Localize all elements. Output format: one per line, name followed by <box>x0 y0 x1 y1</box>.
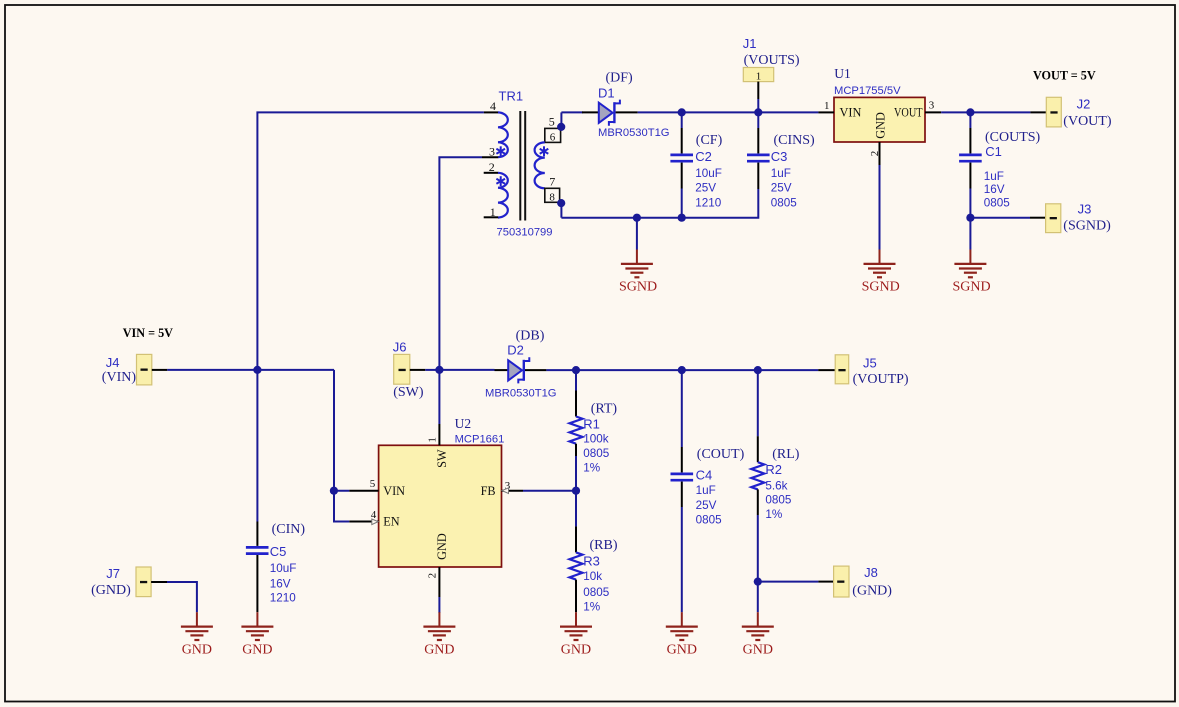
connector J5 <box>818 355 849 384</box>
D1 part number label <box>598 127 670 139</box>
svg-text:GND: GND <box>874 112 888 139</box>
svg-text:MCP1661: MCP1661 <box>455 433 505 445</box>
TR1 pin 1 number <box>490 205 496 219</box>
TR1 pin 6 designator box <box>545 128 561 143</box>
connector J7 <box>136 567 167 597</box>
junction J1 / C3 <box>754 108 762 116</box>
R2 designator <box>765 462 782 477</box>
diode D1 designator <box>598 86 615 101</box>
connector J1 designator <box>743 36 757 51</box>
net label (DB) <box>516 329 545 344</box>
svg-text:J8: J8 <box>864 565 878 580</box>
C2 value 10uF <box>695 167 722 180</box>
svg-text:16V: 16V <box>984 183 1005 196</box>
svg-text:J3: J3 <box>1078 201 1092 216</box>
svg-text:1210: 1210 <box>270 592 297 605</box>
C5 designator <box>270 544 287 559</box>
J7 designator <box>106 566 120 581</box>
net label (RL) <box>772 447 800 462</box>
wire top rail D1 to U1 <box>638 111 819 113</box>
svg-text:1: 1 <box>426 437 438 443</box>
net flag VOUT = 5V <box>1033 68 1096 82</box>
net label (CIN) <box>272 522 306 537</box>
TR1 polarity dot secondary <box>540 146 549 156</box>
svg-text:GND: GND <box>435 533 449 560</box>
resistor R2 <box>751 370 764 581</box>
R2 value 5.6k <box>765 480 787 493</box>
J3 designator <box>1078 201 1092 216</box>
C5 value 16V <box>270 577 291 590</box>
svg-text:(COUTS): (COUTS) <box>985 130 1041 145</box>
svg-text:(COUT): (COUT) <box>697 447 745 462</box>
C4 value 1uF <box>696 484 716 497</box>
svg-text:1: 1 <box>756 70 762 82</box>
svg-text:(RL): (RL) <box>772 447 800 462</box>
TR1 pin 4 number <box>490 99 496 113</box>
junction pins 7/8 <box>557 199 565 207</box>
C1 value 1uF <box>984 170 1004 183</box>
converter U2 body <box>379 445 502 567</box>
svg-text:(DF): (DF) <box>606 71 634 86</box>
U1 pin 2 (GND) <box>869 142 881 165</box>
svg-text:GND: GND <box>242 643 272 658</box>
U2 pin 1 (SW) <box>426 424 439 445</box>
svg-text:(SGND): (SGND) <box>1063 219 1111 234</box>
wire J4 to VIN branch <box>167 369 334 371</box>
TR1 pin 3 stub <box>482 156 498 158</box>
wire R2 to J8 <box>758 581 819 583</box>
junction SGND drop <box>633 214 641 222</box>
J6 designator <box>393 339 407 354</box>
U2 pin 4 (EN) <box>349 509 378 525</box>
wire SW drop to U2 pin1 <box>438 370 440 424</box>
U2 part number MCP1661 <box>455 433 505 445</box>
J5 designator <box>863 356 877 371</box>
svg-text:VIN: VIN <box>840 105 862 119</box>
R1 designator <box>583 416 600 431</box>
R2 value 0805 <box>765 493 792 506</box>
svg-text:GND: GND <box>667 643 697 658</box>
svg-text:C4: C4 <box>696 468 713 483</box>
wire U1 VOUT to J2 <box>941 111 1030 113</box>
svg-text:1: 1 <box>824 100 830 112</box>
connector J1 <box>743 68 773 113</box>
R3 value 10k <box>583 570 602 583</box>
TR1 core <box>520 111 525 221</box>
J4 designator <box>106 355 120 370</box>
wire secondary bottom to bottom rail <box>560 203 562 218</box>
TR1 value 750310799 <box>497 226 553 238</box>
C2 value 25V <box>695 182 716 195</box>
svg-text:(GND): (GND) <box>91 583 131 598</box>
svg-text:2: 2 <box>869 151 881 157</box>
junction C1 / J3 <box>966 214 974 222</box>
svg-text:(SW): (SW) <box>393 385 424 400</box>
svg-text:(GND): (GND) <box>852 584 892 599</box>
C3 designator <box>771 149 788 164</box>
svg-text:GND: GND <box>182 643 212 658</box>
transformer TR1 label <box>499 89 524 104</box>
C2 value 1210 <box>695 196 722 209</box>
power symbol GND (R2) <box>742 582 774 658</box>
diode D2 designator <box>507 342 524 357</box>
svg-text:0805: 0805 <box>771 196 798 209</box>
svg-text:EN: EN <box>383 515 400 529</box>
C1 value 0805 <box>984 196 1011 209</box>
U1 part number MCP1755/5V <box>834 85 901 97</box>
svg-text:4: 4 <box>490 99 496 113</box>
svg-text:R2: R2 <box>765 462 782 477</box>
net label (DF) <box>606 71 634 86</box>
resistor R3 <box>570 491 583 613</box>
svg-text:J6: J6 <box>393 339 407 354</box>
J2 designator <box>1077 97 1091 112</box>
capacitor C2 <box>670 112 693 217</box>
capacitor C3 <box>747 112 770 189</box>
C1 value 16V <box>984 183 1005 196</box>
net label (SW) <box>393 385 424 400</box>
TR1 pin 5 number <box>549 114 555 128</box>
TR1 pin 8 designator box <box>545 188 560 203</box>
connector J3 <box>1030 204 1061 233</box>
junction C2 top <box>678 108 686 116</box>
R1 value 1% <box>583 462 600 475</box>
connector J4 <box>137 354 168 385</box>
svg-text:(VIN): (VIN) <box>102 370 137 385</box>
svg-text:1210: 1210 <box>695 196 722 209</box>
svg-text:GND: GND <box>561 643 591 658</box>
junction SW net <box>435 366 443 374</box>
TR1 pin 2 number <box>489 160 495 174</box>
svg-text:(RT): (RT) <box>591 401 618 416</box>
svg-text:25V: 25V <box>696 499 717 512</box>
svg-text:1uF: 1uF <box>771 167 791 180</box>
svg-text:GND: GND <box>743 643 773 658</box>
U2 pin 5 (VIN) <box>349 478 378 491</box>
resistor R1 <box>570 370 583 491</box>
junction U1 out / C1 <box>966 108 974 116</box>
capacitor C4 <box>671 370 694 612</box>
svg-text:8: 8 <box>549 191 555 203</box>
power symbol GND (R3) <box>560 612 592 657</box>
svg-text:R1: R1 <box>583 416 600 431</box>
junction R2 / J8 <box>754 578 762 586</box>
net label (CF) <box>696 133 723 148</box>
R2 value 1% <box>765 508 782 521</box>
svg-text:VIN = 5V: VIN = 5V <box>123 326 173 340</box>
TR1 pin 2 stub <box>484 172 499 174</box>
wire from TR1 pin4 left along top to vertical drop at x=257 <box>257 112 484 370</box>
junction C4 top <box>678 366 686 374</box>
net label (RB) <box>590 538 618 553</box>
C3 value 25V <box>771 182 792 195</box>
power symbol GND (U2) <box>423 597 455 658</box>
wire top rail secondary to D1 anode <box>561 111 583 113</box>
svg-text:J4: J4 <box>106 355 120 370</box>
svg-text:J7: J7 <box>106 566 120 581</box>
C4 value 0805 <box>696 514 723 527</box>
U1 pin 3 <box>925 100 941 113</box>
C4 designator <box>696 468 713 483</box>
D2 part number label <box>485 387 557 399</box>
svg-text:U2: U2 <box>455 416 472 431</box>
svg-text:C1: C1 <box>985 144 1002 159</box>
wire secondary top corner to junction of pins 5/6 <box>560 112 562 127</box>
bottom secondary rail wire <box>561 189 758 218</box>
wire J7 to GND <box>167 582 197 612</box>
net flag VIN = 5V <box>123 326 173 340</box>
svg-text:D1: D1 <box>598 86 615 101</box>
net label (VOUTS) <box>744 53 800 68</box>
svg-text:FB: FB <box>481 484 496 498</box>
R3 value 0805 <box>583 586 610 599</box>
TR1 pin 3 number <box>489 145 495 159</box>
junction C2 bottom <box>678 214 686 222</box>
diode D2 MBR0530T1G <box>495 357 547 383</box>
svg-text:5: 5 <box>549 114 555 128</box>
power symbol GND (C4) <box>666 612 698 657</box>
svg-text:1uF: 1uF <box>984 170 1004 183</box>
net label (VOUTP) <box>853 372 909 387</box>
TR1 pin 4 stub <box>484 111 498 113</box>
capacitor C1 <box>959 112 982 217</box>
junction pins 5/6 <box>557 123 565 131</box>
svg-text:1%: 1% <box>583 462 600 475</box>
svg-text:MBR0530T1G: MBR0530T1G <box>598 127 670 139</box>
svg-text:(CINS): (CINS) <box>774 133 816 148</box>
net label (SGND) <box>1063 219 1111 234</box>
svg-text:(CIN): (CIN) <box>272 522 306 537</box>
R1 value 0805 <box>583 447 610 460</box>
svg-text:1%: 1% <box>583 600 600 613</box>
U1 pin 1 <box>818 100 834 112</box>
U2 pin 3 (FB) <box>502 480 524 494</box>
junction VIN/EN branch <box>330 487 338 495</box>
svg-text:VOUT: VOUT <box>894 105 923 119</box>
C5 value 10uF <box>270 562 297 575</box>
svg-text:10uF: 10uF <box>270 562 297 575</box>
svg-text:TR1: TR1 <box>499 89 524 104</box>
net label (VOUT) <box>1063 114 1112 129</box>
TR1 primary winding bottom (pins 2-1) <box>498 173 508 218</box>
svg-text:(CF): (CF) <box>696 133 723 148</box>
svg-text:C5: C5 <box>270 544 287 559</box>
svg-text:0805: 0805 <box>765 493 792 506</box>
svg-text:(VOUTP): (VOUTP) <box>853 372 909 387</box>
TR1 pin 7 number <box>549 175 555 189</box>
C3 value 1uF <box>771 167 791 180</box>
svg-text:5.6k: 5.6k <box>765 480 787 493</box>
J8 designator <box>864 565 878 580</box>
connector J2 <box>1030 97 1061 127</box>
TR1 primary winding top (pins 4-3) <box>498 112 508 157</box>
wire J6 to SW junction <box>425 369 439 371</box>
svg-text:MCP1755/5V: MCP1755/5V <box>834 85 901 97</box>
connector J6 <box>394 354 426 384</box>
svg-text:(VOUTS): (VOUTS) <box>744 53 800 68</box>
R1 value 100k <box>583 433 609 446</box>
svg-text:(RB): (RB) <box>590 538 618 553</box>
svg-text:0805: 0805 <box>583 447 610 460</box>
net label (VIN) <box>102 370 137 385</box>
C4 value 25V <box>696 499 717 512</box>
R3 value 1% <box>583 600 600 613</box>
wire EN branch <box>334 491 349 522</box>
net label (COUT) <box>697 447 745 462</box>
C2 designator <box>695 149 712 164</box>
R3 designator <box>583 553 600 568</box>
svg-text:10k: 10k <box>583 570 602 583</box>
net label (GND) J8 <box>852 584 892 599</box>
wire D2 cathode to J5 <box>546 369 818 371</box>
diode D1 MBR0530T1G <box>582 100 638 126</box>
U2 reference <box>455 416 472 431</box>
junction R2 top <box>754 366 762 374</box>
C1 designator <box>985 144 1002 159</box>
svg-text:C2: C2 <box>695 149 712 164</box>
svg-text:2: 2 <box>426 573 438 579</box>
svg-text:16V: 16V <box>270 577 291 590</box>
power symbol SGND (C1) <box>953 218 991 295</box>
svg-text:3: 3 <box>929 100 935 112</box>
svg-text:U1: U1 <box>834 66 851 81</box>
TR1 polarity dot primary top <box>496 146 505 156</box>
svg-text:SW: SW <box>435 449 449 468</box>
svg-text:J2: J2 <box>1077 97 1091 112</box>
svg-text:100k: 100k <box>583 433 609 446</box>
regulator U1 body <box>834 97 925 142</box>
wire from TR1 pin3 to vertical SW net drop at x=439 <box>439 157 482 370</box>
C3 value 0805 <box>771 196 798 209</box>
net label (GND) J7 <box>91 583 131 598</box>
wire VIN branch drop to U2 <box>334 370 349 491</box>
svg-text:1%: 1% <box>765 508 782 521</box>
svg-text:D2: D2 <box>507 342 524 357</box>
svg-text:0805: 0805 <box>696 514 723 527</box>
svg-text:5: 5 <box>370 478 376 490</box>
capacitor C5 <box>246 370 269 612</box>
wire C1 to J3 <box>970 217 1030 219</box>
junction J4 rail / C5 / top drop <box>253 366 261 374</box>
junction FB node <box>572 487 580 495</box>
svg-text:10uF: 10uF <box>695 167 722 180</box>
wire SW junction to D2 anode <box>439 369 494 371</box>
power symbol SGND (below transformer rail) <box>619 218 657 295</box>
svg-text:MBR0530T1G: MBR0530T1G <box>485 387 557 399</box>
power symbol GND (C5) <box>241 612 273 657</box>
junction R1 top <box>572 366 580 374</box>
U2 pin 2 (GND) <box>426 567 439 597</box>
U1 reference <box>834 66 851 81</box>
svg-text:(VOUT): (VOUT) <box>1063 114 1112 129</box>
svg-text:J5: J5 <box>863 356 877 371</box>
svg-text:7: 7 <box>549 175 555 189</box>
svg-text:6: 6 <box>550 131 556 143</box>
svg-text:J1: J1 <box>743 36 757 51</box>
connector J8 <box>818 566 849 597</box>
svg-text:SGND: SGND <box>619 280 657 295</box>
svg-text:SGND: SGND <box>953 280 991 295</box>
power symbol GND (J7) <box>181 612 213 657</box>
svg-text:VIN: VIN <box>383 484 405 498</box>
svg-text:R3: R3 <box>583 553 600 568</box>
svg-text:0805: 0805 <box>984 196 1011 209</box>
svg-text:25V: 25V <box>771 182 792 195</box>
svg-text:750310799: 750310799 <box>497 226 553 238</box>
svg-text:25V: 25V <box>695 182 716 195</box>
svg-text:1uF: 1uF <box>696 484 716 497</box>
C5 value 1210 <box>270 592 297 605</box>
net label (COUTS) <box>985 130 1041 145</box>
TR1 polarity dot primary bottom <box>496 176 505 186</box>
svg-text:GND: GND <box>424 643 454 658</box>
wire FB to divider <box>523 490 576 492</box>
net label (CINS) <box>774 133 816 148</box>
svg-text:VOUT = 5V: VOUT = 5V <box>1033 68 1096 82</box>
net label (RT) <box>591 401 618 416</box>
TR1 secondary winding (pins 6-8) <box>535 142 545 188</box>
TR1 pin 1 stub <box>484 216 499 218</box>
svg-text:0805: 0805 <box>583 586 610 599</box>
power symbol SGND (U1 GND) <box>862 165 900 295</box>
svg-text:C3: C3 <box>771 149 788 164</box>
svg-text:SGND: SGND <box>862 280 900 295</box>
